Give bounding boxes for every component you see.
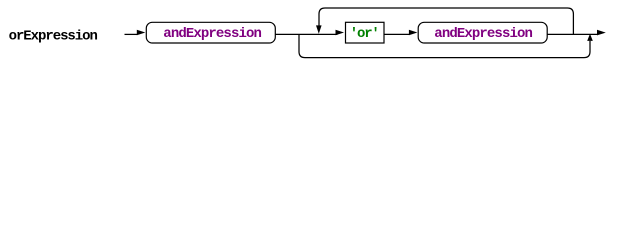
- exit wire to end: [547, 33, 597, 35]
- arrowhead into andExpression box 1: [137, 30, 146, 36]
- svg-text:orExpression: orExpression: [9, 28, 98, 44]
- svg-text:andExpression: andExpression: [163, 26, 262, 42]
- svg-text:andExpression: andExpression: [434, 26, 533, 42]
- wire box1 to or-box: [275, 33, 337, 35]
- rule box andExpression 1: [146, 22, 275, 43]
- start wire: [125, 33, 138, 35]
- rule box andExpression 2: [418, 22, 547, 43]
- arrowhead up bypass rejoin: [587, 34, 593, 41]
- wire or-box to box2: [384, 33, 410, 35]
- arrowhead into andExpression box 2: [409, 30, 418, 36]
- loop back wire top: [319, 8, 573, 34]
- bypass wire bottom: [299, 34, 590, 57]
- final arrowhead end of rule: [597, 30, 606, 36]
- terminal box 'or': [346, 22, 385, 43]
- svg-text:'or': 'or': [350, 26, 380, 42]
- arrowhead down loop rejoin: [316, 25, 322, 33]
- arrowhead into or box: [336, 30, 345, 36]
